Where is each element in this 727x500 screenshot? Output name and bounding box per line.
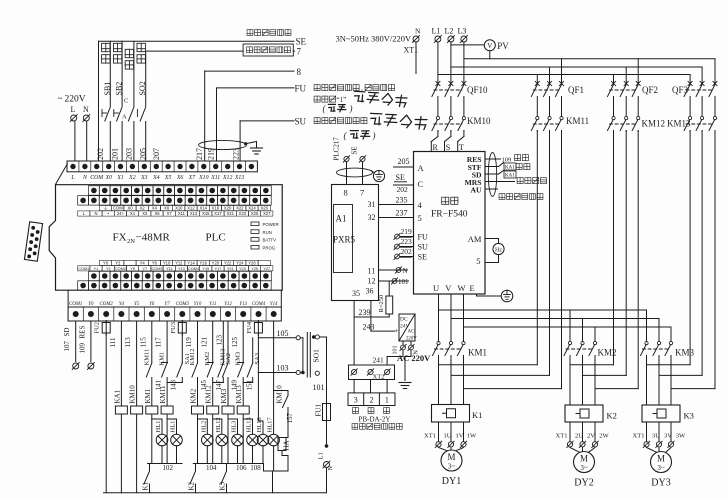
breaker QF3 — [672, 81, 717, 116]
label 报警 rotated — [125, 49, 133, 69]
svg-text:3W: 3W — [676, 432, 686, 439]
svg-text:Y14: Y14 — [270, 302, 278, 307]
svg-text:237: 237 — [396, 209, 408, 218]
wire N stub from PXR5 11 — [379, 267, 408, 275]
svg-text:X5: X5 — [154, 211, 160, 216]
wire 107 SD stub — [63, 321, 79, 369]
contactor KM10 main contacts — [432, 116, 491, 132]
contactor coil KM10 on Y5 wire — [129, 321, 143, 493]
svg-text:KM11: KM11 — [143, 349, 150, 366]
svg-text:Y5: Y5 — [130, 267, 135, 271]
inverter terminal A with wire 205 — [394, 157, 425, 173]
svg-text:X15: X15 — [202, 211, 210, 216]
svg-text:W: W — [458, 283, 466, 293]
svg-text:M: M — [447, 452, 455, 462]
svg-text:35: 35 — [352, 289, 360, 298]
wire KM11 down to K1 bends — [439, 131, 562, 389]
svg-text:K2: K2 — [607, 411, 617, 421]
terminal L1 N of control supply — [318, 444, 335, 493]
svg-text:KM2: KM2 — [598, 348, 617, 358]
wire KM12 down to K2 bends — [570, 131, 638, 389]
terminal N — [83, 115, 90, 122]
svg-text:PLC: PLC — [206, 232, 226, 244]
svg-text:HL12: HL12 — [215, 417, 222, 432]
lamp HL17 branch on Y14 wire — [267, 321, 280, 471]
svg-text:Y17: Y17 — [215, 267, 222, 271]
svg-text:SE: SE — [351, 146, 359, 154]
svg-text:KM13: KM13 — [667, 119, 691, 129]
svg-text:AU: AU — [471, 186, 482, 195]
svg-text:KM1: KM1 — [144, 388, 152, 403]
svg-text:FX: FX — [113, 232, 127, 244]
svg-text:X3: X3 — [142, 211, 148, 216]
svg-text:Y1: Y1 — [94, 267, 99, 271]
label SB1启动 rotated — [102, 43, 112, 95]
svg-text:K1: K1 — [142, 481, 150, 490]
PLC output channel micro labels — [100, 260, 271, 265]
wire 241 to XT2 — [373, 351, 412, 381]
svg-text:KM3: KM3 — [235, 352, 242, 366]
label 以下为1 — [314, 96, 346, 104]
converter AC terminals 101 N — [393, 341, 420, 355]
svg-text:219: 219 — [207, 148, 216, 160]
inverter terminal 5 wire 237 from PXR5 32 — [379, 209, 422, 224]
svg-text:C: C — [418, 179, 424, 189]
svg-text:FU: FU — [418, 233, 429, 242]
label SU — [295, 117, 307, 127]
inverter right terminal MRS — [465, 178, 515, 187]
svg-text:N: N — [94, 211, 97, 216]
breaker QF2 — [608, 81, 659, 116]
contactor KM3 main contacts — [641, 342, 695, 406]
wire 109 RES stub — [79, 321, 95, 369]
svg-text:~: ~ — [58, 94, 63, 104]
svg-text:8: 8 — [297, 67, 302, 77]
svg-text:A1: A1 — [336, 214, 347, 224]
inverter terminal C with wire SE 202 — [394, 173, 424, 194]
svg-text:104: 104 — [206, 464, 217, 472]
svg-text:125: 125 — [231, 337, 239, 348]
selector SO2 (X3 column) — [137, 51, 145, 161]
label 输出停止 — [517, 178, 546, 184]
svg-text:3V: 3V — [664, 432, 672, 439]
svg-text:X12: X12 — [222, 175, 232, 181]
svg-text:XT1: XT1 — [556, 432, 568, 439]
svg-text:11: 11 — [368, 267, 376, 276]
svg-text:101: 101 — [398, 278, 409, 286]
svg-text:202: 202 — [397, 185, 409, 194]
svg-text:N: N — [403, 267, 408, 275]
svg-text:COM1: COM1 — [78, 267, 89, 271]
contactor KM2 main contacts — [564, 342, 617, 406]
svg-text:KM11: KM11 — [159, 385, 167, 404]
svg-text:2V: 2V — [587, 432, 595, 439]
svg-text:K2: K2 — [188, 481, 196, 490]
input terminal strip X — [67, 161, 257, 181]
svg-text:2: 2 — [370, 396, 374, 405]
svg-text:111: 111 — [109, 337, 117, 347]
svg-text:3~: 3~ — [657, 464, 665, 472]
svg-text:X10: X10 — [175, 206, 183, 211]
svg-text:X17: X17 — [214, 211, 222, 216]
svg-text:XT1: XT1 — [633, 432, 645, 439]
svg-text:103: 103 — [277, 364, 289, 373]
shield earth circle — [371, 170, 385, 181]
svg-text:XT1: XT1 — [404, 46, 419, 55]
svg-text:RES: RES — [79, 326, 87, 339]
box 调节器公共端 with wire to 7 — [146, 44, 295, 56]
svg-text:117: 117 — [155, 337, 163, 348]
fuse FU1 — [315, 402, 331, 445]
label 压力变送器插头 — [352, 424, 402, 430]
svg-text:QF1: QF1 — [568, 85, 584, 95]
svg-text:S: S — [446, 143, 450, 152]
label 变频器公共端 — [247, 30, 291, 36]
svg-text:SE: SE — [418, 253, 428, 262]
svg-text:X6: X6 — [176, 175, 184, 181]
svg-text:X2: X2 — [140, 206, 146, 211]
svg-text:121: 121 — [200, 337, 208, 348]
svg-text:Hz: Hz — [495, 248, 502, 254]
svg-text:3~: 3~ — [580, 464, 588, 472]
resistor R=250 — [378, 281, 393, 317]
control group 1: KM11/KM1 contacts, KM1 KM11 coils, HL1 HL11 lamps, K1 — [142, 321, 191, 493]
handwritten (稳速) — [344, 130, 376, 141]
svg-text:205: 205 — [139, 148, 148, 160]
svg-text:KM2: KM2 — [204, 352, 211, 366]
svg-text:5: 5 — [418, 213, 422, 223]
svg-text:L: L — [71, 105, 76, 114]
inverter right terminal RES with wire 109 — [467, 155, 512, 164]
plug PB-DA-2Y 3 2 1 — [348, 380, 395, 406]
svg-text:KM13: KM13 — [235, 385, 243, 404]
wire R S T from KM10 to inverter — [431, 131, 464, 152]
wire U V W from inverter to KM1 — [439, 294, 464, 342]
svg-text:KM10: KM10 — [467, 116, 491, 126]
inverter terminal AM with Hz meter — [468, 234, 504, 266]
svg-text:“1”: “1” — [337, 96, 347, 104]
svg-text:202: 202 — [96, 148, 105, 160]
svg-text:201: 201 — [111, 148, 120, 160]
svg-text:X27: X27 — [263, 211, 271, 216]
svg-text:L1: L1 — [318, 452, 325, 459]
svg-text:115: 115 — [139, 337, 147, 348]
terminal L2 — [445, 27, 455, 43]
svg-text:Y15: Y15 — [202, 267, 209, 271]
svg-text:COM1: COM1 — [69, 302, 82, 307]
svg-text:Y24: Y24 — [236, 261, 244, 266]
svg-text:X1: X1 — [130, 211, 136, 216]
label XT1 — [404, 46, 419, 55]
terminal stub PLC217 — [333, 137, 350, 185]
terminal stub SE — [351, 146, 366, 184]
relay coil KA1 on Y4 wire — [114, 321, 128, 493]
wire net 8 (X10 to terminal 8) — [205, 71, 294, 161]
svg-text:T: T — [459, 143, 464, 152]
power converter DC24V/AC220V box — [399, 314, 417, 342]
svg-text:COM: COM — [90, 175, 104, 181]
svg-text:X12: X12 — [187, 206, 195, 211]
thermal overload relay K1 — [432, 405, 483, 423]
svg-text:Y23: Y23 — [239, 267, 246, 271]
svg-text:SE: SE — [396, 173, 405, 182]
svg-text:SU: SU — [295, 117, 307, 127]
label 电流输入选择 — [499, 194, 543, 200]
svg-text:X0: X0 — [104, 175, 112, 181]
svg-text:HL1: HL1 — [155, 421, 162, 433]
thermal overload relay K3 — [642, 405, 694, 422]
svg-text:⏚: ⏚ — [103, 206, 107, 211]
svg-text:32: 32 — [368, 213, 376, 222]
wire 239 — [354, 301, 389, 366]
motor DY3 with terminals XT1 3U 3V 3W — [633, 422, 687, 489]
svg-text:FU4: FU4 — [246, 321, 253, 333]
svg-text:FU: FU — [295, 84, 307, 94]
contactor KM11 main contacts — [531, 116, 589, 132]
svg-text:KM2: KM2 — [190, 388, 198, 403]
handwritten 上限检测 — [370, 111, 428, 129]
svg-text:DY1: DY1 — [442, 476, 461, 487]
svg-text:): ) — [349, 104, 353, 114]
svg-text:12: 12 — [368, 277, 376, 286]
svg-text:119: 119 — [185, 337, 193, 348]
svg-text:X23: X23 — [239, 211, 247, 216]
selector switch SO1 — [300, 333, 320, 378]
svg-text:A: A — [122, 114, 127, 121]
svg-text:KM10: KM10 — [276, 385, 284, 404]
svg-text:101: 101 — [313, 383, 325, 392]
svg-text:Y4: Y4 — [119, 302, 125, 307]
svg-text:KM10: KM10 — [129, 385, 137, 404]
svg-text:X10: X10 — [198, 175, 208, 181]
svg-text:X3: X3 — [140, 175, 148, 181]
svg-text:N: N — [83, 105, 89, 114]
wire bus1 from L3 — [464, 59, 715, 84]
svg-text:102: 102 — [162, 464, 173, 472]
label 变频器频率到达 — [314, 118, 367, 124]
svg-text:3~: 3~ — [448, 463, 456, 471]
svg-text:Y11: Y11 — [166, 267, 172, 271]
svg-text:X21: X21 — [226, 211, 234, 216]
programming port connector — [24, 222, 42, 261]
svg-text:E: E — [470, 283, 475, 293]
alarm contact 报警 (X2 column) — [122, 41, 134, 161]
svg-text:HL18: HL18 — [256, 417, 263, 432]
handwritten (制动) — [323, 103, 353, 113]
label FR-F540 — [431, 210, 468, 220]
label SE — [296, 37, 307, 47]
motor DY1 with terminals XT1 1U 1V 1W — [424, 422, 477, 487]
svg-text:X11: X11 — [178, 211, 186, 216]
svg-text:DY2: DY2 — [574, 478, 593, 489]
svg-text:1: 1 — [385, 396, 389, 405]
svg-text:COM3: COM3 — [152, 267, 163, 271]
svg-text:107: 107 — [63, 341, 71, 352]
svg-text:X13: X13 — [234, 175, 244, 181]
svg-text:COM4: COM4 — [188, 267, 199, 271]
svg-text:L1: L1 — [432, 27, 441, 36]
cable marker ellipse PXR5 input — [337, 168, 373, 177]
svg-text:PB-DA-2Y: PB-DA-2Y — [359, 416, 391, 424]
svg-text:Y5: Y5 — [134, 302, 140, 307]
svg-text:Y20: Y20 — [212, 261, 220, 266]
svg-text:Y4: Y4 — [140, 261, 146, 266]
inverter right terminal STF with relay contact KA1 — [468, 163, 516, 173]
wire net 101 to fuse FU1 — [313, 337, 327, 404]
svg-text:N: N — [328, 466, 334, 471]
thermal overload relay K2 — [565, 405, 617, 422]
svg-text:108: 108 — [250, 464, 261, 472]
svg-text:1U: 1U — [444, 432, 452, 439]
svg-text:X7: X7 — [167, 211, 173, 216]
bottom bus wire — [104, 492, 327, 494]
svg-text:SB2: SB2 — [115, 82, 124, 96]
svg-text:Y16: Y16 — [199, 261, 207, 266]
svg-text:HL11: HL11 — [170, 418, 177, 433]
svg-text:HL17: HL17 — [267, 417, 274, 433]
svg-text:223: 223 — [232, 148, 241, 160]
svg-text:X13: X13 — [190, 211, 198, 216]
svg-text:Y0: Y0 — [103, 261, 109, 266]
PLC input channel micro labels — [100, 206, 271, 211]
wire number labels 111-125 rotated — [109, 335, 239, 348]
PLC output terminal dots row lower — [78, 281, 271, 290]
svg-text:FU2: FU2 — [94, 322, 101, 334]
svg-text:Y0: Y0 — [88, 302, 94, 307]
svg-text:X24: X24 — [248, 206, 256, 211]
svg-text:XT1: XT1 — [424, 432, 436, 439]
svg-text:BATTV: BATTV — [263, 238, 277, 243]
wire 101 stub from PXR5 12 — [379, 278, 410, 286]
svg-text:223: 223 — [401, 237, 413, 246]
svg-text:HL3: HL3 — [231, 421, 238, 433]
svg-text:PLC217: PLC217 — [333, 137, 341, 161]
svg-text:COM: COM — [113, 206, 123, 211]
svg-text:COM2: COM2 — [100, 302, 114, 307]
svg-text:HL2: HL2 — [200, 421, 207, 433]
wire net SE common line — [99, 41, 295, 161]
svg-text:Y2: Y2 — [115, 261, 121, 266]
svg-text:SO2: SO2 — [138, 81, 147, 95]
svg-text:C: C — [124, 98, 128, 105]
svg-text:2N: 2N — [127, 238, 135, 245]
wire N to input strip — [86, 122, 88, 161]
wire segment 108 and bottom joins — [249, 464, 288, 493]
svg-text:239: 239 — [359, 308, 371, 317]
svg-text:N: N — [415, 27, 421, 36]
svg-text:Y6: Y6 — [152, 261, 158, 266]
svg-text:Y7: Y7 — [165, 302, 171, 307]
wire L to input strip — [74, 122, 76, 161]
svg-text:Y21: Y21 — [227, 267, 234, 271]
wire bus phase L3 (top) — [438, 43, 464, 84]
fuse FU4 on COM4 wire — [246, 321, 262, 338]
svg-text:KA1: KA1 — [505, 174, 515, 179]
svg-text:KM13: KM13 — [220, 349, 227, 366]
svg-text:R: R — [433, 143, 439, 152]
control group 3: KM13/KM3 contacts, KM3 KM13 coils, HL3 HL13 lamps, K3 — [219, 321, 262, 493]
label 输出频率检测,设定频率 — [314, 85, 394, 93]
svg-text:R=250: R=250 — [378, 295, 385, 313]
control group 2: KM12/KM2 contacts, KM2 KM12 coils, HL2 HL12 lamps, K2 — [188, 321, 232, 493]
svg-text:XT2: XT2 — [373, 374, 385, 381]
svg-text:L3: L3 — [458, 27, 467, 36]
svg-text:7: 7 — [297, 47, 302, 57]
svg-text:KM12: KM12 — [205, 385, 213, 404]
handwritten 下限检测 — [353, 89, 407, 107]
svg-text:X4: X4 — [152, 174, 160, 181]
label 3N~50Hz 380V/220V — [336, 34, 413, 44]
svg-text:V: V — [487, 42, 492, 50]
svg-text:X4: X4 — [152, 206, 158, 211]
svg-text:Y10: Y10 — [194, 302, 202, 307]
svg-text:KM11: KM11 — [566, 116, 589, 126]
svg-text:COM2: COM2 — [115, 267, 126, 271]
svg-text:Y13: Y13 — [239, 302, 247, 307]
svg-text:Y13: Y13 — [178, 267, 185, 271]
node ~220V supply label — [58, 94, 90, 115]
svg-text:QF2: QF2 — [642, 85, 658, 95]
contactor KM13 main contacts — [667, 117, 717, 132]
svg-text:): ) — [372, 131, 376, 141]
svg-text:X16: X16 — [212, 206, 220, 211]
controller A1 PXR5 box — [332, 185, 379, 301]
svg-text:KM1: KM1 — [159, 352, 166, 366]
svg-text:X1: X1 — [116, 175, 124, 181]
svg-text:113: 113 — [124, 337, 132, 348]
svg-text:1V: 1V — [456, 432, 464, 439]
svg-text:COM3: COM3 — [176, 302, 190, 307]
svg-text:KM3: KM3 — [675, 348, 695, 358]
svg-text:DY3: DY3 — [651, 478, 670, 489]
labels 红 黑 蓝 — [353, 408, 390, 414]
svg-text:A: A — [418, 163, 425, 173]
svg-text:143: 143 — [170, 380, 178, 391]
svg-text:POWER: POWER — [263, 222, 279, 227]
cable marker ellipse on inverter right wires — [488, 153, 496, 197]
svg-text:Y22: Y22 — [224, 261, 232, 266]
svg-text:L: L — [70, 175, 74, 181]
svg-text:106: 106 — [236, 464, 247, 472]
inverter right terminal SD — [472, 171, 516, 180]
svg-text:KM12: KM12 — [642, 119, 666, 129]
svg-text:1W: 1W — [467, 432, 477, 439]
svg-text:5: 5 — [476, 256, 480, 266]
contactor KM1 main contacts — [433, 342, 488, 405]
ground under converter — [399, 383, 411, 389]
svg-text:Y11: Y11 — [209, 302, 216, 307]
svg-text:X5: X5 — [164, 175, 172, 181]
label FU — [295, 84, 307, 94]
label 三菱 — [442, 197, 458, 204]
labels R S T — [433, 143, 464, 152]
svg-text:7: 7 — [360, 188, 364, 198]
svg-text:FR−F540: FR−F540 — [431, 210, 468, 220]
PXR5 terminals 8 7 31 32 11 12 35 36 — [344, 188, 376, 299]
svg-text:Y6: Y6 — [149, 302, 155, 307]
svg-text:SO1: SO1 — [311, 349, 320, 363]
fuse FU3 on COM3 wire — [170, 321, 186, 363]
pushbutton SB1 with wire (X0 column) — [102, 41, 110, 161]
svg-text:M: M — [657, 454, 665, 464]
svg-text:3N~50Hz 380V/220V: 3N~50Hz 380V/220V — [336, 34, 413, 44]
svg-text:241: 241 — [373, 356, 385, 365]
inverter right terminal AU — [471, 186, 498, 195]
svg-text:HL13: HL13 — [246, 417, 253, 432]
terminal L1 — [432, 27, 442, 43]
svg-text:123: 123 — [216, 335, 224, 346]
svg-text:36: 36 — [366, 287, 374, 296]
